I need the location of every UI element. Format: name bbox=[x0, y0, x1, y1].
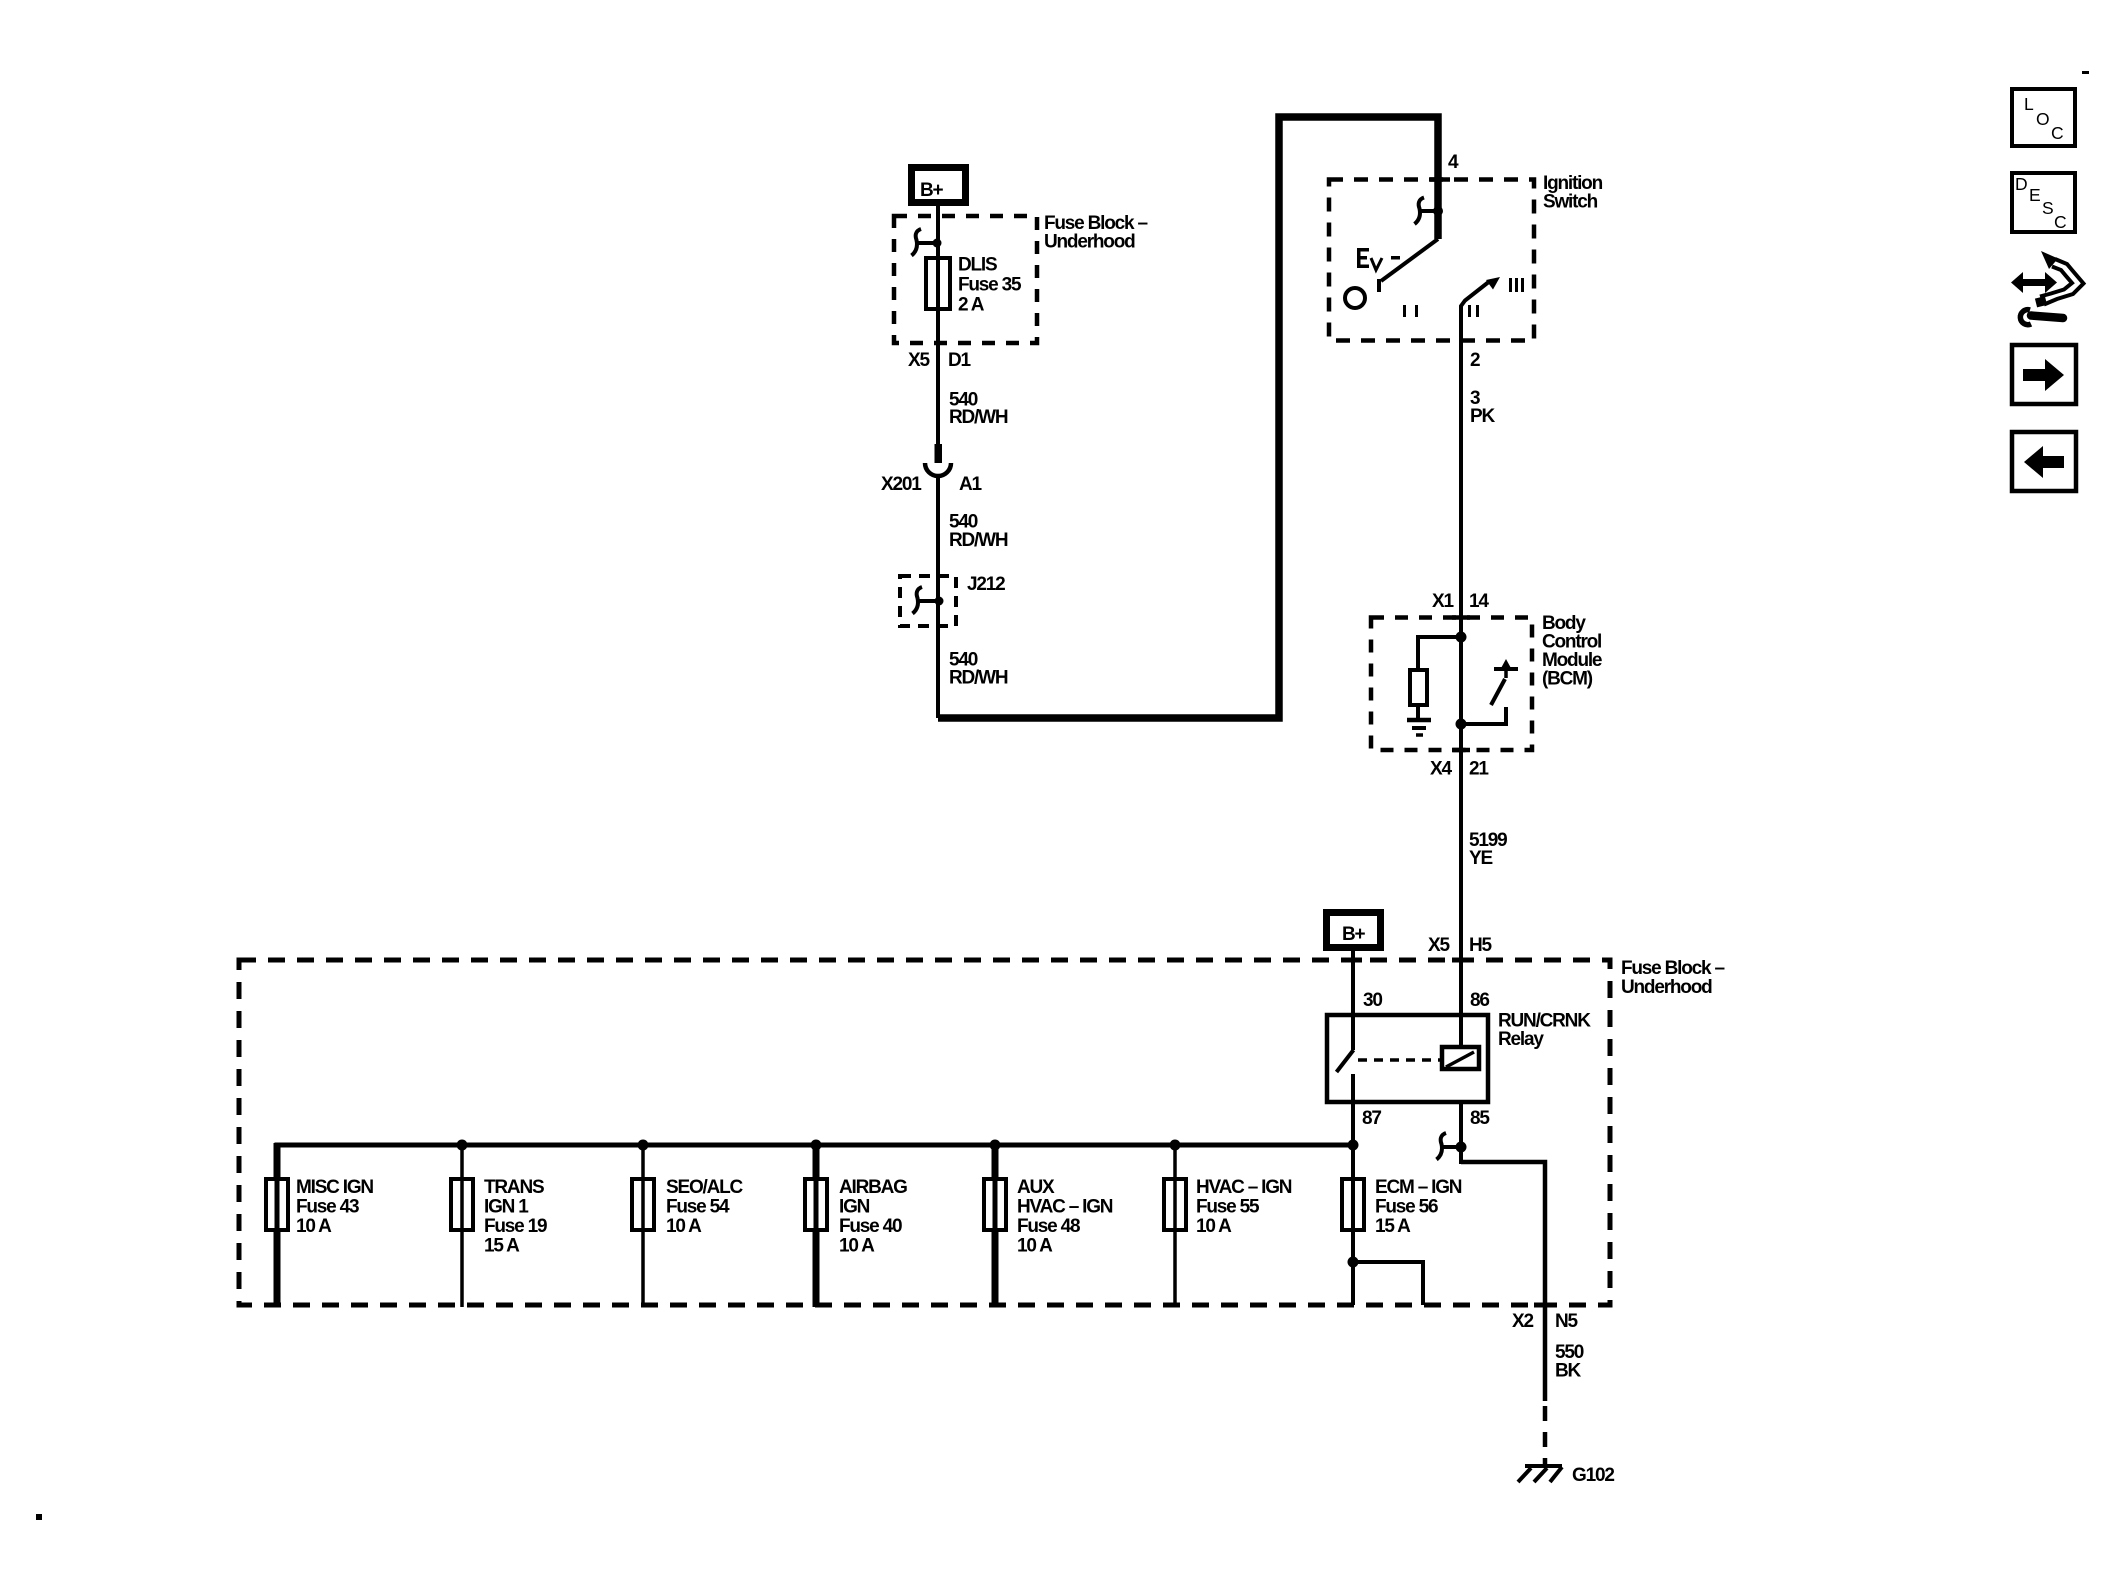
svg-text:30: 30 bbox=[1363, 990, 1382, 1011]
svg-text:TRANS: TRANS bbox=[484, 1177, 544, 1198]
svg-text:L: L bbox=[2024, 94, 2034, 114]
svg-text:S: S bbox=[2042, 198, 2054, 218]
pin labels X4 21 bbox=[1430, 759, 1489, 780]
svg-text:Fuse 43: Fuse 43 bbox=[296, 1197, 359, 1218]
svg-text:HVAC – IGN: HVAC – IGN bbox=[1017, 1197, 1113, 1218]
nav box LOC bbox=[2012, 89, 2075, 146]
wire 540 RD/WH middle segment bbox=[938, 476, 1008, 689]
fuse ECM-IGN Fuse 56 15 A bbox=[1342, 1145, 1462, 1305]
wire label 540 RD/WH (second) bbox=[949, 512, 1008, 552]
wire ECM jog to X2 bbox=[1353, 1262, 1423, 1305]
wire label 550 BK bbox=[1555, 1342, 1584, 1382]
svg-text:MISC IGN: MISC IGN bbox=[296, 1177, 373, 1198]
BCM internal switch bbox=[1461, 659, 1518, 724]
svg-text:RD/WH: RD/WH bbox=[949, 407, 1008, 428]
svg-text:A1: A1 bbox=[959, 474, 983, 495]
svg-text:E: E bbox=[2029, 185, 2041, 205]
node junction ECM output bbox=[1348, 1257, 1359, 1268]
position marks II (right) bbox=[1468, 305, 1479, 317]
svg-text:10 A: 10 A bbox=[296, 1216, 332, 1237]
nav box DESC bbox=[2012, 173, 2075, 232]
wire loop from J212 to ignition switch pin 4 bbox=[938, 117, 1438, 718]
svg-text:DLIS: DLIS bbox=[958, 255, 997, 276]
svg-text:85: 85 bbox=[1470, 1108, 1490, 1129]
svg-text:2: 2 bbox=[1470, 350, 1480, 371]
terminal hook at fuse block feed bbox=[912, 229, 942, 256]
svg-text:2 A: 2 A bbox=[958, 295, 985, 316]
fuse bus from relay 87 bbox=[275, 1143, 1354, 1148]
node junction ECM bbox=[1348, 1140, 1359, 1151]
resistor branch wire bbox=[1418, 637, 1461, 672]
svg-text:4: 4 bbox=[1448, 152, 1459, 173]
svg-text:RD/WH: RD/WH bbox=[949, 530, 1008, 551]
svg-text:86: 86 bbox=[1470, 990, 1489, 1011]
svg-text:B+: B+ bbox=[920, 180, 944, 201]
svg-text:87: 87 bbox=[1362, 1108, 1381, 1129]
tick H5 crossing bbox=[1452, 958, 1470, 963]
node junction to resistor branch bbox=[1456, 632, 1467, 643]
svg-text:15 A: 15 A bbox=[1375, 1216, 1411, 1237]
tick 30 crossing bbox=[1345, 958, 1362, 963]
svg-text:(BCM): (BCM) bbox=[1542, 669, 1593, 690]
wire relay 85 down bbox=[1459, 1102, 1463, 1164]
svg-text:21: 21 bbox=[1469, 759, 1489, 780]
pin labels X1 14 bbox=[1432, 591, 1489, 612]
svg-text:D1: D1 bbox=[948, 350, 972, 371]
svg-text:Fuse 48: Fuse 48 bbox=[1017, 1216, 1080, 1237]
relay coil bbox=[1442, 1047, 1479, 1069]
power symbol B+ (lower) bbox=[1327, 913, 1381, 948]
fuse MISC IGN Fuse 43 10 A bbox=[266, 1143, 373, 1307]
nav box forward arrow bbox=[2012, 345, 2076, 404]
svg-text:RD/WH: RD/WH bbox=[949, 668, 1008, 689]
svg-text:D: D bbox=[2015, 174, 2028, 194]
pin labels 87 85 bbox=[1362, 1108, 1490, 1129]
wire relay 87 to fuse bus bbox=[1351, 1102, 1355, 1145]
svg-text:PK: PK bbox=[1470, 406, 1495, 427]
svg-text:Fuse 55: Fuse 55 bbox=[1196, 1197, 1260, 1218]
svg-text:Relay: Relay bbox=[1498, 1029, 1544, 1050]
svg-text:Fuse 40: Fuse 40 bbox=[839, 1216, 902, 1237]
wire through BCM bbox=[1459, 618, 1463, 753]
fuse block underhood (upper) dashed box bbox=[894, 216, 1037, 343]
ground (BCM internal) bbox=[1407, 720, 1431, 735]
tick X4 crossing bbox=[1452, 748, 1470, 753]
svg-text:Underhood: Underhood bbox=[1044, 232, 1135, 253]
position glyph Ev bbox=[1357, 248, 1400, 270]
fuse TRANS IGN 1 Fuse 19 15 A bbox=[451, 1145, 547, 1307]
fuse HVAC-IGN Fuse 55 10 A bbox=[1164, 1145, 1292, 1307]
pin labels X5 H5 (lower) bbox=[1428, 935, 1493, 956]
relay armature (pin 30 to 87) bbox=[1337, 1015, 1354, 1102]
connector X201 pin A1 bbox=[881, 444, 983, 495]
terminal hook relay 85 bbox=[1437, 1133, 1467, 1160]
wire 540 RD/WH lower segment bbox=[936, 578, 940, 718]
position marks III bbox=[1509, 278, 1524, 292]
splice J212 bbox=[900, 574, 1005, 626]
ground G102 bbox=[1518, 1465, 1614, 1486]
nav icon outline arrow bbox=[2036, 251, 2084, 305]
svg-text:IGN: IGN bbox=[839, 1197, 870, 1218]
ignition switch lever bbox=[1379, 239, 1438, 292]
nav box back arrow bbox=[2012, 432, 2076, 491]
power symbol B+ (upper) bbox=[912, 168, 966, 203]
dashed wire to ground bbox=[1543, 1406, 1548, 1464]
node junction TRANS bbox=[457, 1140, 468, 1151]
wire resistor to ground bbox=[1416, 705, 1420, 719]
rotary contact with arrow bbox=[1461, 277, 1500, 341]
fuse SEO/ALC Fuse 54 10 A bbox=[632, 1145, 744, 1307]
node junction BCM output bbox=[1456, 719, 1467, 730]
wire 85 jog to 550 BK bbox=[1461, 1162, 1545, 1401]
svg-text:IGN 1: IGN 1 bbox=[484, 1197, 529, 1218]
svg-text:C: C bbox=[2054, 212, 2067, 232]
nav icon double arrow bbox=[2011, 272, 2057, 293]
svg-text:Fuse 35: Fuse 35 bbox=[958, 275, 1022, 296]
svg-text:G102: G102 bbox=[1572, 1465, 1614, 1486]
svg-text:H5: H5 bbox=[1469, 935, 1493, 956]
wire 540 RD/WH upper segment bbox=[938, 309, 1008, 446]
svg-text:AUX: AUX bbox=[1017, 1177, 1055, 1198]
svg-text:X2: X2 bbox=[1512, 1311, 1533, 1332]
svg-text:X201: X201 bbox=[881, 474, 922, 495]
pin 2 label bbox=[1470, 350, 1480, 371]
svg-text:AIRBAG: AIRBAG bbox=[839, 1177, 907, 1198]
label Body Control Module (BCM) bbox=[1542, 613, 1602, 690]
tick X1 crossing bbox=[1452, 615, 1470, 620]
svg-text:10 A: 10 A bbox=[1017, 1236, 1053, 1257]
wire 3 PK ignition to BCM bbox=[1461, 340, 1495, 618]
svg-text:Underhood: Underhood bbox=[1621, 977, 1712, 998]
nav icon wrench bbox=[2020, 310, 2063, 325]
svg-text:C: C bbox=[2051, 123, 2064, 143]
svg-text:X5: X5 bbox=[1428, 935, 1450, 956]
terminal hook ignition pin 4 bbox=[1415, 198, 1444, 225]
pin labels X5 D1 bbox=[908, 350, 972, 371]
svg-text:X5: X5 bbox=[908, 350, 930, 371]
svg-text:Fuse 56: Fuse 56 bbox=[1375, 1197, 1438, 1218]
svg-text:10 A: 10 A bbox=[1196, 1216, 1232, 1237]
stray mark top right bbox=[2082, 71, 2089, 74]
svg-text:X4: X4 bbox=[1430, 759, 1452, 780]
wire B+ to DLIS fuse bbox=[936, 206, 940, 260]
svg-text:15 A: 15 A bbox=[484, 1236, 520, 1257]
label Fuse Block - Underhood (upper) bbox=[1044, 213, 1147, 253]
svg-text:J212: J212 bbox=[967, 574, 1005, 595]
label Ignition Switch bbox=[1543, 173, 1603, 213]
node junction AUX bbox=[990, 1140, 1001, 1151]
wire H5 to relay pin 86 bbox=[1459, 960, 1463, 1048]
svg-text:YE: YE bbox=[1469, 848, 1492, 869]
fuse AIRBAG IGN Fuse 40 10 A bbox=[805, 1145, 907, 1307]
relay actuation dashed link bbox=[1358, 1058, 1442, 1062]
svg-text:Fuse 19: Fuse 19 bbox=[484, 1216, 547, 1237]
svg-text:O: O bbox=[2036, 109, 2050, 129]
label Fuse Block - Underhood (lower) bbox=[1621, 958, 1724, 998]
svg-text:SEO/ALC: SEO/ALC bbox=[666, 1177, 744, 1198]
body control module dashed box bbox=[1371, 618, 1532, 751]
pin labels 30 86 bbox=[1363, 990, 1489, 1011]
pin labels X2 N5 bbox=[1512, 1311, 1579, 1332]
svg-text:Fuse 54: Fuse 54 bbox=[666, 1197, 730, 1218]
tick pin 4 crossing bbox=[1430, 177, 1450, 182]
svg-text:N5: N5 bbox=[1555, 1311, 1579, 1332]
fuse block underhood (lower) dashed box bbox=[239, 960, 1610, 1305]
wire 5199 YE bbox=[1461, 752, 1507, 960]
wire B+ to relay pin 30 bbox=[1351, 951, 1355, 1015]
node junction AIRBAG bbox=[811, 1140, 822, 1151]
svg-text:Fuse Block –: Fuse Block – bbox=[1621, 958, 1724, 979]
svg-text:BK: BK bbox=[1555, 1361, 1582, 1382]
ignition switch dashed box bbox=[1329, 180, 1534, 341]
position marks II (left) bbox=[1403, 305, 1418, 317]
pin 4 label bbox=[1448, 152, 1459, 173]
svg-text:ECM – IGN: ECM – IGN bbox=[1375, 1177, 1462, 1198]
fuse AUX HVAC-IGN Fuse 48 10 A bbox=[984, 1145, 1113, 1307]
tick X2 crossing bbox=[1534, 1303, 1556, 1308]
RUN/CRNK relay box bbox=[1327, 1015, 1488, 1102]
position mark O (circle) bbox=[1345, 288, 1365, 308]
svg-text:Switch: Switch bbox=[1543, 192, 1598, 213]
svg-text:X1: X1 bbox=[1432, 591, 1454, 612]
node junction HVAC bbox=[1170, 1140, 1181, 1151]
svg-text:B+: B+ bbox=[1342, 924, 1366, 945]
stray mark bottom left bbox=[36, 1514, 42, 1520]
svg-text:10 A: 10 A bbox=[839, 1236, 875, 1257]
fuse DLIS Fuse 35 2 A bbox=[926, 255, 1022, 316]
node junction SEO bbox=[638, 1140, 649, 1151]
label RUN/CRNK Relay bbox=[1498, 1011, 1591, 1051]
resistor R (BCM pull-down) bbox=[1410, 670, 1427, 705]
svg-text:HVAC – IGN: HVAC – IGN bbox=[1196, 1177, 1292, 1198]
svg-text:10 A: 10 A bbox=[666, 1216, 702, 1237]
svg-text:14: 14 bbox=[1469, 591, 1489, 612]
